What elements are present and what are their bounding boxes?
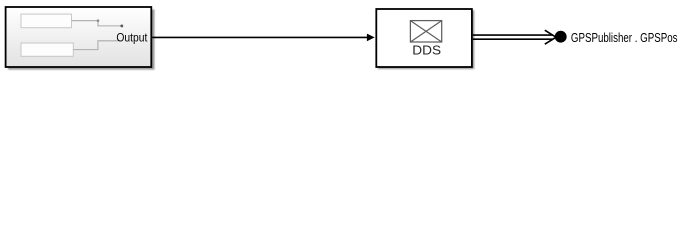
double line (topic connection) lower [473,38,553,40]
inner block 1 (top) [21,14,72,28]
svg-text:DDS: DDS [412,43,441,58]
double line (topic connection) upper [473,34,553,36]
signal wire to DDS block [152,36,367,38]
arrowhead at DDS block [367,34,375,42]
topic node dot [555,31,567,43]
wire from inner block 1 [72,21,122,26]
junction dot on wire 1 [97,19,100,22]
inner block 2 (bottom) [21,43,73,56]
svg-text:GPSPublisher . GPSPos: GPSPublisher . GPSPos [571,31,678,45]
subsystem block shadow [8,9,155,69]
envelope icon [410,21,441,42]
DDS block shadow [378,10,475,69]
subsystem block (source) [6,7,152,67]
DDS publish block [376,9,472,67]
open arrowhead [545,30,556,44]
svg-text:Output: Output [116,31,148,45]
terminal dot of wire 1 [120,24,123,27]
wire from inner block 2 [73,41,118,50]
